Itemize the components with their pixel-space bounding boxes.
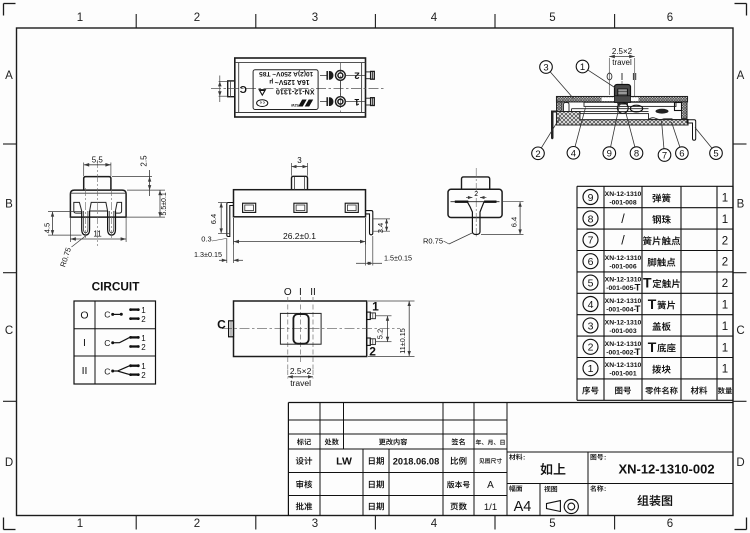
svg-text:CIRCUIT: CIRCUIT: [92, 280, 141, 294]
svg-text:C: C: [240, 83, 247, 94]
svg-text:XN-12-1310: XN-12-1310: [276, 87, 315, 96]
svg-text:1/1: 1/1: [484, 502, 497, 513]
svg-text:5.2: 5.2: [375, 329, 384, 339]
svg-text:II: II: [82, 365, 88, 377]
svg-text:2: 2: [354, 70, 359, 81]
svg-text:XN-12-1310: XN-12-1310: [605, 255, 642, 262]
svg-text:1: 1: [77, 12, 83, 24]
svg-text:6.4: 6.4: [510, 217, 519, 227]
svg-text:0.3: 0.3: [201, 235, 211, 244]
svg-text:2: 2: [722, 278, 728, 290]
svg-text:II: II: [310, 287, 316, 298]
svg-text:5: 5: [588, 278, 594, 290]
svg-text:3: 3: [588, 320, 594, 332]
svg-text:4: 4: [431, 12, 438, 24]
svg-text:1: 1: [722, 300, 728, 312]
svg-text:2018.06.08: 2018.06.08: [393, 457, 440, 467]
svg-text:2: 2: [722, 235, 728, 247]
svg-text:9: 9: [607, 149, 612, 160]
svg-text:5.5±0.1: 5.5±0.1: [161, 192, 168, 215]
svg-text:26.2±0.1: 26.2±0.1: [283, 231, 316, 241]
svg-text:2: 2: [194, 12, 200, 24]
svg-text:B: B: [737, 199, 745, 211]
svg-text::: :: [604, 486, 606, 493]
svg-text:C: C: [104, 338, 110, 348]
svg-text:2: 2: [588, 342, 594, 354]
svg-text:T: T: [648, 339, 657, 355]
svg-text:C: C: [217, 318, 226, 332]
svg-text:6: 6: [667, 12, 673, 24]
svg-text:4: 4: [571, 148, 576, 159]
svg-text:T: T: [635, 304, 641, 315]
svg-text:1: 1: [77, 518, 83, 530]
svg-text:1: 1: [141, 362, 146, 371]
svg-text:7: 7: [588, 235, 594, 247]
svg-text:D: D: [736, 457, 744, 469]
svg-text:6: 6: [679, 149, 684, 160]
svg-text:6.4: 6.4: [209, 214, 218, 224]
svg-text:4: 4: [588, 299, 594, 311]
svg-text:5: 5: [549, 518, 555, 530]
svg-text:LW: LW: [336, 456, 352, 468]
svg-text:-001-006: -001-006: [609, 264, 636, 271]
svg-text:A: A: [5, 70, 13, 82]
svg-text:5: 5: [549, 12, 555, 24]
svg-text:D: D: [5, 457, 13, 469]
svg-text:2: 2: [474, 191, 478, 198]
svg-text:-001-005-: -001-005-: [606, 285, 635, 292]
svg-text:6: 6: [588, 256, 594, 268]
svg-text:2.5: 2.5: [139, 155, 148, 167]
svg-text:-001-003: -001-003: [609, 328, 636, 335]
svg-text:1: 1: [722, 193, 728, 205]
svg-text:A: A: [487, 480, 494, 491]
svg-text:XN-12-1310-002: XN-12-1310-002: [618, 462, 714, 477]
svg-text:travel: travel: [290, 378, 311, 388]
svg-text:3.4: 3.4: [376, 223, 385, 233]
svg-text:1: 1: [722, 214, 728, 226]
svg-text:7: 7: [662, 151, 667, 162]
svg-text:4.5: 4.5: [43, 223, 52, 233]
svg-text:8: 8: [588, 213, 594, 225]
svg-text:A4: A4: [514, 499, 532, 515]
svg-text:1: 1: [372, 300, 379, 314]
svg-text:C: C: [736, 325, 744, 337]
svg-text:10(2)A 250V~ T85: 10(2)A 250V~ T85: [259, 70, 314, 77]
svg-text:2: 2: [535, 149, 540, 160]
svg-text:2: 2: [141, 315, 146, 324]
svg-text:I: I: [299, 287, 302, 298]
svg-text:-001-004-: -001-004-: [606, 307, 635, 314]
svg-text:/: /: [621, 233, 625, 247]
svg-text:-001-001: -001-001: [609, 371, 636, 378]
svg-text:1: 1: [722, 342, 728, 354]
svg-text:μ: μ: [269, 78, 273, 85]
svg-text:3: 3: [543, 63, 548, 74]
svg-text:5.5: 5.5: [92, 155, 104, 164]
svg-text:/: /: [621, 212, 625, 226]
svg-text:4: 4: [431, 518, 438, 530]
svg-text:T: T: [635, 283, 641, 294]
svg-text::: :: [604, 455, 606, 462]
svg-text:-001-002-: -001-002-: [606, 349, 635, 356]
svg-text:c e: c e: [260, 100, 265, 104]
svg-text:R0.75: R0.75: [423, 237, 443, 246]
svg-text:1.5±0.15: 1.5±0.15: [384, 254, 412, 263]
svg-text:2.5×2: 2.5×2: [612, 47, 633, 56]
svg-text:1: 1: [722, 321, 728, 333]
svg-text:XN-12-1310: XN-12-1310: [605, 191, 642, 198]
svg-text::: :: [523, 455, 525, 462]
svg-text:6: 6: [667, 518, 673, 530]
svg-text:travel: travel: [612, 58, 632, 67]
svg-text:3: 3: [297, 156, 302, 165]
svg-text:9: 9: [588, 192, 594, 204]
svg-text:2: 2: [141, 343, 146, 352]
svg-text:T: T: [643, 275, 652, 291]
svg-text:5: 5: [713, 149, 718, 160]
svg-text:O: O: [284, 287, 292, 298]
svg-text:B: B: [5, 199, 13, 211]
svg-text:1: 1: [354, 96, 360, 107]
svg-text:XN-12-1310: XN-12-1310: [605, 362, 642, 369]
svg-text:3: 3: [312, 12, 318, 24]
svg-text:2: 2: [141, 371, 146, 380]
svg-text:2.5×2: 2.5×2: [290, 366, 312, 376]
svg-text:C: C: [5, 325, 13, 337]
svg-text:-001-008: -001-008: [609, 200, 636, 207]
svg-text:T: T: [635, 347, 641, 358]
svg-text:1: 1: [141, 306, 146, 315]
svg-text:16A 125V~: 16A 125V~: [275, 78, 310, 85]
svg-text:3: 3: [312, 518, 318, 530]
svg-text:1: 1: [580, 62, 585, 73]
svg-text:8: 8: [634, 149, 639, 160]
svg-text:1: 1: [588, 363, 594, 375]
svg-text:2: 2: [194, 518, 200, 530]
svg-text:1: 1: [141, 334, 146, 343]
svg-text:11±0.15: 11±0.15: [398, 328, 407, 353]
svg-text:1: 1: [722, 364, 728, 376]
svg-text:XN-12-1310: XN-12-1310: [605, 319, 642, 326]
svg-text:2: 2: [722, 257, 728, 269]
svg-text:SZW: SZW: [290, 103, 298, 107]
svg-text:T: T: [648, 296, 657, 312]
svg-text:O: O: [80, 310, 88, 322]
svg-text:1.3±0.15: 1.3±0.15: [194, 250, 222, 259]
svg-text:11: 11: [93, 230, 102, 239]
svg-text:I: I: [83, 337, 86, 349]
svg-text:C: C: [104, 367, 110, 377]
svg-text:C: C: [104, 310, 110, 320]
svg-text:A: A: [737, 70, 745, 82]
